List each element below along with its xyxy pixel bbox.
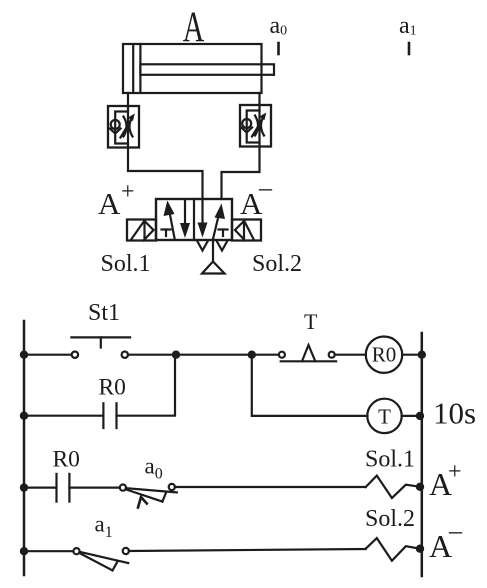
svg-text:R0: R0 — [53, 447, 80, 473]
rung 2 wire left — [24, 415, 103, 417]
solenoid Sol.2 slash — [244, 221, 254, 240]
timer coil T — [367, 399, 401, 433]
flow control valve right: check valve seat — [241, 128, 252, 133]
flow control valve left: check valve seat — [110, 129, 121, 134]
valve left box: blocked port T — [162, 228, 171, 230]
svg-text:+: + — [448, 459, 462, 485]
rung 1 wire middle — [128, 354, 279, 356]
timer contact T caret — [302, 345, 315, 361]
right power rail — [421, 333, 424, 576]
svg-text:A: A — [98, 186, 121, 221]
solenoid Sol.1 slash — [132, 221, 145, 240]
node rung1-right rail — [418, 351, 426, 359]
node rung1/timer branch — [248, 351, 256, 359]
svg-text:Sol.1: Sol.1 — [101, 251, 151, 277]
supply stem — [212, 241, 214, 262]
wire T coil to rail — [402, 415, 422, 417]
rung 2 wire right + riser to rung1 — [117, 355, 176, 416]
solenoid Sol.1 box — [127, 220, 156, 241]
rung 3 wire left — [24, 487, 57, 489]
timer contact T bar — [281, 360, 336, 362]
rung 4 wire left — [24, 550, 74, 552]
sensor a1 tick — [408, 43, 411, 54]
pushbutton St1 actuator bar — [71, 336, 130, 338]
valve 5/2 body — [156, 199, 232, 240]
relay coil R0 — [366, 337, 402, 373]
flow control valve left: adjust arrow — [121, 119, 133, 138]
valve left box: P-to-A arrow (up-left) — [170, 212, 175, 238]
solenoid Sol.2 coil zigzag — [366, 538, 420, 561]
flow control valve right: throttle arcs — [255, 116, 264, 136]
wire: cylinder cap port down through left flow valve to elbow — [128, 93, 203, 199]
solenoid Sol.2 box — [232, 220, 261, 241]
flow control valve left: throttle arcs — [124, 117, 133, 137]
supply triangle — [202, 262, 225, 274]
node rung1-left rail — [20, 351, 28, 359]
limit switch a0 blade — [126, 488, 177, 492]
svg-text:R0: R0 — [372, 343, 397, 367]
wire coil to rail — [402, 354, 422, 356]
svg-text:–: – — [448, 516, 463, 545]
exhaust V left — [198, 242, 208, 251]
solenoid Sol.2 pilot triangle — [235, 221, 244, 240]
svg-text:10s: 10s — [433, 396, 476, 431]
node Sol.2-right rail — [416, 545, 424, 553]
svg-text:T: T — [304, 309, 318, 334]
svg-text:Sol.1: Sol.1 — [365, 447, 415, 473]
svg-text:Sol.2: Sol.2 — [252, 251, 302, 277]
node rung1/rung2 branch — [172, 351, 180, 359]
node Sol.1-right rail — [416, 483, 424, 491]
exhaust V right — [217, 242, 227, 251]
valve right box: working down arrow — [201, 199, 203, 224]
flow control valve right: bypass loop — [247, 111, 260, 143]
sensor a0 tick — [277, 43, 280, 54]
left power rail — [23, 321, 26, 575]
contact R0 (rung 2) — [102, 403, 104, 428]
rung 4 wire right — [129, 549, 366, 551]
svg-text:St1: St1 — [88, 300, 120, 326]
valve right box: P-to-B arrow (up-right) — [213, 214, 219, 239]
svg-text:T: T — [378, 405, 391, 429]
node rung2-left rail — [20, 412, 28, 420]
rung 1 wire to coil — [335, 354, 366, 356]
limit switch a0 circles — [120, 485, 126, 491]
valve left box: exhaust down arrow — [184, 200, 186, 225]
node T coil-right rail — [416, 412, 424, 420]
limit switch a0 cam wedge — [138, 497, 147, 508]
rung 3 wire right — [175, 486, 366, 488]
solenoid Sol.1 coil zigzag — [366, 476, 420, 498]
flow control valve right: check valve ball — [242, 119, 251, 128]
rung 1 wire left — [24, 354, 72, 356]
valve divider — [193, 199, 195, 240]
wire: cylinder rod port down through right flow valve to elbow — [222, 93, 260, 199]
solenoid Sol.1 pilot triangle — [145, 221, 154, 240]
rung 3 wire middle — [69, 487, 119, 489]
node rung3-left rail — [20, 483, 28, 491]
flow control valve left: outer box — [108, 106, 139, 148]
svg-text:–: – — [258, 173, 273, 202]
piston (double line) — [132, 44, 134, 93]
flow control valve right: adjust arrow — [252, 118, 264, 137]
flow control valve left: bypass loop — [115, 112, 128, 144]
limit switch a1 blade — [80, 552, 129, 563]
cylinder A body — [123, 44, 262, 93]
svg-text:Sol.2: Sol.2 — [365, 506, 415, 532]
timer contact T circles — [279, 352, 285, 358]
node rung4-left rail — [20, 547, 28, 555]
valve right box: blocked port T — [219, 228, 228, 230]
timer branch riser — [252, 355, 368, 416]
pushbutton St1 contact circles — [72, 352, 78, 358]
piston rod — [140, 64, 274, 75]
contact R0 (rung 3) — [55, 474, 57, 502]
flow control valve right: outer box — [240, 105, 271, 147]
svg-text:R0: R0 — [99, 375, 126, 401]
limit switch a1 circles — [73, 548, 79, 554]
svg-text:+: + — [121, 179, 135, 205]
flow control valve left: check valve ball — [111, 120, 120, 129]
